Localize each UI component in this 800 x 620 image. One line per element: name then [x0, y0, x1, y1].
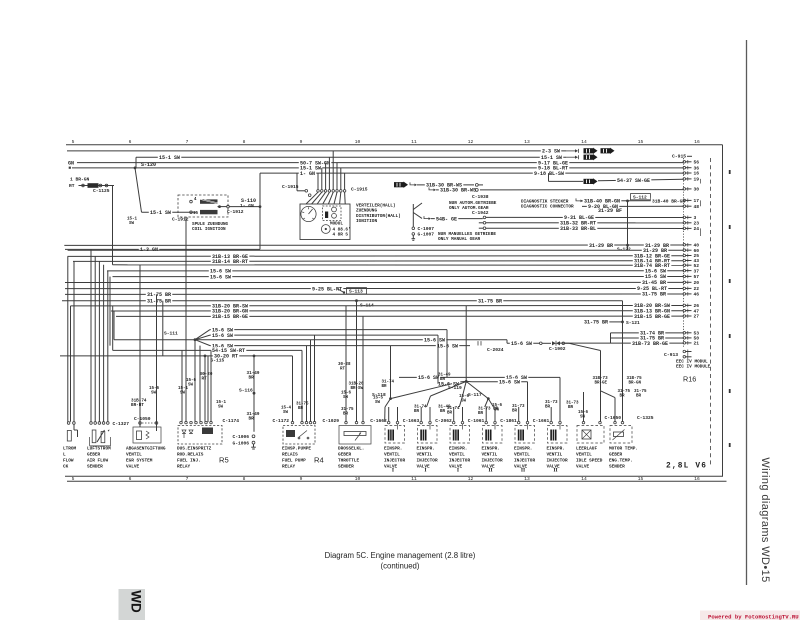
svg-text:C-1915: C-1915: [351, 186, 368, 192]
pin 20 of C-915: [683, 281, 686, 284]
svg-text:31-29 BF: 31-29 BF: [598, 208, 622, 214]
connector C-913 pins: [683, 350, 686, 353]
wire 31B-33 BR-BL to pin 24: [486, 227, 684, 229]
svg-text:15-6: 15-6: [459, 395, 470, 399]
svg-text:C-1174: C-1174: [223, 418, 240, 424]
svg-text:20: 20: [694, 280, 700, 286]
svg-text:54-37 SW-GE: 54-37 SW-GE: [617, 178, 650, 184]
svg-text:31-74: 31-74: [414, 406, 427, 410]
label 9-31 BL-GE: [563, 214, 596, 220]
connector plug 2-3 SW b: [601, 148, 615, 154]
label 31-29 BR pin60: [642, 247, 668, 253]
svg-text:31-73: 31-73: [545, 401, 558, 405]
svg-text:31-75: 31-75: [296, 403, 309, 407]
svg-text:BR: BR: [568, 406, 574, 410]
label 31-75 BR s113 left: [146, 291, 172, 297]
svg-text:SW: SW: [129, 222, 135, 226]
wire drop R4 c: [306, 346, 308, 422]
wire drop B6: [109, 277, 111, 346]
wire drop R5 c: [210, 350, 212, 422]
label 31B-20 BR-SW left: [211, 303, 250, 309]
wire hub riser: [465, 306, 467, 382]
svg-text:12: 12: [468, 139, 474, 145]
injector valve 2: [420, 421, 423, 424]
svg-text:SENDER: SENDER: [338, 465, 354, 470]
wire drop EGR2: [156, 294, 158, 426]
svg-text:9: 9: [300, 139, 303, 145]
svg-text:31-75 BR: 31-75 BR: [147, 298, 171, 304]
svg-text:BR: BR: [440, 378, 446, 382]
svg-text:SENDER: SENDER: [609, 465, 625, 470]
wire drop R4 b: [301, 350, 303, 422]
wire coil to S-110: [230, 206, 261, 208]
svg-text:C-2062: C-2062: [435, 418, 452, 424]
wire drop B3: [98, 261, 100, 421]
svg-text:31B-75: 31B-75: [627, 377, 643, 381]
label 31-74 BR pin53: [639, 330, 665, 336]
wire drop R5 d: [181, 350, 183, 422]
wire drop coil-R5: [185, 217, 187, 422]
svg-text:31B-14 BR-RT: 31B-14 BR-RT: [212, 259, 248, 265]
wire coil riser: [259, 173, 261, 249]
label 15-6 SW b left: [209, 274, 232, 280]
svg-text:60: 60: [694, 248, 700, 254]
svg-text:31-75 BR: 31-75 BR: [642, 292, 666, 298]
wire 15-1 SW top bus: [136, 156, 566, 158]
svg-text:G-1006: G-1006: [233, 440, 250, 446]
svg-text:II: II: [488, 468, 492, 474]
injector valve 5 wires: [518, 407, 520, 421]
pin 60 of C-915: [683, 249, 686, 252]
wire stub to 54-37 plug: [548, 173, 550, 181]
wire drop throttle 1: [345, 306, 347, 422]
wire 31B-15 BR-GE bus to pin 27: [116, 315, 684, 317]
svg-text:SW: SW: [375, 401, 381, 405]
wire 31-29 BR to pin 60: [68, 249, 684, 251]
connector plug 15-1 SW: [584, 154, 598, 160]
junction S-115: [204, 355, 207, 358]
wire 31B-20 BR-GN bus to pin 47: [111, 310, 684, 312]
label 9-18 BL-RT: [537, 165, 570, 171]
pin 36 of C-915: [683, 166, 686, 169]
svg-text:ROD.RELAIS: ROD.RELAIS: [177, 453, 204, 458]
svg-text:31B-15 BR-GE: 31B-15 BR-GE: [212, 314, 248, 320]
terminal G-1007: [412, 233, 415, 236]
svg-text:15-6 SW: 15-6 SW: [437, 343, 458, 349]
svg-text:11: 11: [411, 476, 417, 482]
svg-text:SW: SW: [180, 392, 186, 396]
label 15-1 SW right: [540, 154, 563, 160]
margin section mark 2: [729, 225, 731, 229]
label 9-20 BL-GN: [587, 203, 620, 209]
svg-text:17: 17: [694, 198, 700, 204]
svg-text:VENTIL: VENTIL: [547, 453, 563, 458]
wire drop R4 e: [314, 335, 316, 422]
distributor pin rings: [317, 190, 320, 193]
svg-text:ENG.TEMP.: ENG.TEMP.: [609, 459, 633, 464]
svg-text:19: 19: [694, 177, 700, 183]
coil output junction: [218, 205, 221, 208]
svg-text:31-49: 31-49: [438, 406, 451, 410]
svg-text:BR-SW: BR-SW: [351, 387, 364, 391]
svg-text:BR: BR: [298, 407, 304, 411]
svg-text:15-1: 15-1: [178, 387, 189, 391]
svg-text:I: I: [424, 468, 426, 474]
svg-text:37: 37: [694, 268, 700, 274]
svg-text:24: 24: [694, 226, 700, 232]
label 15-6 SW hub b: [437, 381, 460, 387]
svg-text:C-1861: C-1861: [500, 418, 517, 424]
svg-text:15-6: 15-6: [492, 404, 503, 408]
wire 54-37 SW-GE to pin 19: [598, 179, 684, 180]
wire row1 drop to hub: [446, 330, 448, 378]
wire drop C-1125: [112, 186, 114, 265]
pin 19 of C-915: [683, 178, 686, 181]
wire 54-15 SW-RT: [113, 349, 302, 351]
junction S-118: [389, 397, 392, 400]
svg-text:EINSP.PUMPE: EINSP.PUMPE: [282, 447, 311, 452]
label 31-29 BR mid: [588, 242, 614, 248]
wire S-120 drop to coil: [135, 168, 142, 212]
margin section mark 4: [729, 334, 731, 338]
svg-text:C-2024: C-2024: [487, 347, 504, 353]
svg-text:GEBER: GEBER: [609, 453, 623, 458]
junction wedge S-113: [337, 289, 344, 293]
wire 9-31 BL-GE to pin 3: [486, 216, 684, 218]
svg-text:DUS.EINSPRITZ: DUS.EINSPRITZ: [177, 447, 212, 452]
svg-text:6: 6: [129, 476, 132, 482]
svg-text:SW: SW: [151, 391, 157, 395]
svg-text:BR: BR: [478, 412, 484, 416]
svg-text:5: 5: [72, 139, 75, 145]
wire S-118 diagonal: [391, 384, 453, 399]
diode C-1902 symbol: [552, 341, 556, 345]
component EGR valve: [139, 422, 142, 425]
connector C-2024 symbol: [477, 341, 479, 345]
svg-text:S-112: S-112: [633, 195, 647, 201]
svg-text:CK: CK: [63, 465, 69, 470]
svg-text:GEBER: GEBER: [87, 453, 101, 458]
wire hub diagonals to injectors: [385, 399, 391, 407]
grid frame top rule: [66, 144, 723, 146]
svg-text:56: 56: [694, 160, 700, 166]
svg-text:4: 4: [194, 198, 197, 202]
svg-text:31B-33 BR-BL: 31B-33 BR-BL: [560, 226, 596, 232]
label 31B-20 BR-SW right: [633, 302, 672, 308]
svg-text:31-73: 31-73: [566, 402, 579, 406]
connector plug C-1938 feed: [394, 182, 408, 188]
junction coil bus: [259, 205, 262, 208]
svg-text:BR: BR: [545, 406, 551, 410]
svg-text:WD: WD: [129, 590, 144, 613]
svg-text:C-1061: C-1061: [468, 418, 485, 424]
svg-text:6: 6: [129, 139, 132, 145]
svg-text:C-1915: C-1915: [282, 184, 299, 190]
svg-text:I: I: [457, 468, 459, 474]
svg-text:ABGASENTGIFTUNG: ABGASENTGIFTUNG: [126, 447, 166, 452]
svg-text:2,8L V6: 2,8L V6: [666, 463, 707, 471]
svg-text:15-6 SW: 15-6 SW: [212, 333, 233, 339]
distributor box: [300, 204, 350, 240]
label 31B-13 BR-GN right: [633, 308, 672, 314]
ignition coil dashed box: [178, 195, 228, 217]
component air flow sender (edge, partial): [67, 422, 70, 425]
svg-text:31-75: 31-75: [341, 408, 354, 412]
svg-text:16: 16: [694, 476, 700, 482]
svg-text:VALVE: VALVE: [384, 465, 398, 470]
svg-text:31-75: 31-75: [618, 390, 631, 394]
svg-text:15-4: 15-4: [281, 407, 292, 411]
pin group bracket b: [700, 228, 702, 236]
wire coil output: [219, 206, 221, 208]
label 54-15 SW-RT: [211, 347, 247, 353]
wire drop B4: [103, 265, 105, 422]
svg-text:31-73: 31-73: [512, 405, 525, 409]
svg-text:C-1125: C-1125: [93, 188, 110, 194]
injector valve 5: [517, 421, 520, 424]
svg-text:C-1661: C-1661: [533, 418, 550, 424]
svg-text:C-1007: C-1007: [418, 226, 435, 232]
svg-text:EEC IV MODULE: EEC IV MODULE: [676, 365, 711, 370]
svg-text:BR: BR: [382, 385, 388, 389]
svg-text:INJECTOR: INJECTOR: [417, 459, 438, 464]
label 31B-14 BR-RT right: [633, 258, 672, 264]
injector valve 4 wires: [485, 407, 487, 421]
wire 15-6 SW bus to pin 57: [113, 276, 684, 278]
svg-text:INJECTOR: INJECTOR: [482, 459, 503, 464]
wire drop row339: [113, 311, 115, 340]
svg-text:EINSPR.: EINSPR.: [449, 447, 467, 452]
svg-text:SENDER: SENDER: [87, 465, 103, 470]
pin 47 of C-915: [683, 309, 686, 312]
label 54-37 SW-GE: [616, 177, 652, 183]
junction S-116: [253, 392, 256, 395]
svg-text:5: 5: [72, 476, 75, 482]
svg-text:31B-15 BR-GE: 31B-15 BR-GE: [634, 314, 670, 320]
injector valve 3: [452, 421, 455, 424]
pin 30 of C-915: [683, 188, 686, 191]
svg-text:LUFTSTROM: LUFTSTROM: [87, 447, 111, 452]
svg-text:MOTOR TEMP.: MOTOR TEMP.: [609, 447, 638, 452]
label 15-6 SW hub a: [417, 374, 440, 380]
ring C-1902 right: [562, 342, 565, 345]
pin group bracket c: [700, 179, 702, 184]
svg-text:GN: GN: [68, 160, 74, 166]
wire 31-75 BR long bus: [62, 300, 623, 302]
pin 26 of C-915: [683, 304, 686, 307]
svg-text:BR: BR: [249, 417, 255, 422]
svg-text:EGR SYSTEM: EGR SYSTEM: [126, 459, 153, 464]
svg-text:23: 23: [694, 221, 700, 227]
wire drop idle 1: [583, 392, 585, 422]
svg-text:10: 10: [355, 476, 361, 482]
wire drop A2: [73, 261, 75, 421]
svg-text:S-113: S-113: [349, 289, 363, 295]
svg-text:DROSSELKL.: DROSSELKL.: [338, 447, 364, 452]
svg-text:22: 22: [694, 286, 700, 292]
label 15-1 SW coil feed: [149, 209, 172, 215]
svg-text:VENTIL: VENTIL: [576, 453, 592, 458]
module circle: [321, 225, 330, 234]
inner dashed margin rule: [710, 158, 712, 467]
watermark band: [700, 611, 800, 620]
svg-text:15-6 SW: 15-6 SW: [418, 375, 439, 381]
svg-text:11: 11: [411, 139, 417, 145]
wire distributor C-1915 left stub: [296, 173, 298, 191]
inline connector rings: [82, 184, 85, 187]
label 31-75 BR pin50: [639, 335, 665, 341]
pin 24 of C-915: [683, 227, 686, 230]
label 31-75 BR S-121: [583, 319, 609, 325]
svg-text:BR: BR: [636, 395, 642, 399]
label 9-25 BL-RT right: [636, 285, 669, 291]
wire 31-29 BR bus to pin 40: [64, 244, 683, 246]
svg-text:LEERLAUF: LEERLAUF: [576, 447, 597, 452]
wire 31B-40 BR-GN to pin 17: [582, 200, 684, 202]
svg-text:15-6: 15-6: [578, 411, 589, 415]
margin section mark 1: [729, 170, 731, 174]
pin 16 of C-915: [683, 172, 686, 175]
svg-text:40: 40: [694, 243, 700, 249]
wire drop S-111 to R5: [194, 340, 196, 422]
svg-text:7: 7: [186, 139, 189, 145]
wire drop R5 e: [207, 356, 209, 422]
distributor pin risers: [317, 173, 319, 189]
hall sensor magnet bar: [325, 212, 328, 219]
wire C-1902 link: [506, 340, 508, 344]
svg-text:C-1172: C-1172: [273, 418, 290, 424]
gear option branch wedge: [412, 204, 414, 227]
terminal C-1006: [252, 435, 255, 438]
svg-text:16: 16: [694, 139, 700, 145]
wire drop throttle 2 S-114: [356, 301, 358, 422]
svg-text:54B- GE: 54B- GE: [436, 216, 457, 222]
wire 31B-73 BR-GE to pin 21: [560, 342, 684, 344]
pin 27 of C-915: [683, 315, 686, 318]
svg-text:7: 7: [186, 476, 189, 482]
label 15-6 SW hub right: [505, 374, 528, 380]
WD page tab: [119, 589, 146, 620]
label 31B-33 BR-BL: [559, 225, 598, 231]
pin 53 of C-915: [683, 332, 686, 335]
svg-text:THROTTLE: THROTTLE: [338, 459, 359, 464]
pin 48 of C-915: [683, 205, 686, 208]
svg-text:16: 16: [694, 171, 700, 177]
wire 31-45 BR bus to pin 20: [65, 281, 684, 283]
coil terminal 15: [190, 211, 193, 214]
svg-text:R4: R4: [314, 456, 324, 465]
svg-text:13: 13: [524, 476, 530, 482]
svg-text:10: 10: [355, 139, 361, 145]
label S-112 boxed: [631, 194, 651, 200]
svg-text:1- GN: 1- GN: [240, 203, 254, 209]
svg-text:31-75 BR: 31-75 BR: [478, 298, 502, 304]
svg-text:S-121: S-121: [626, 320, 640, 326]
label S-113 boxed: [347, 288, 367, 294]
pin 43 of C-915: [683, 259, 686, 262]
label 15-6 SW b right: [644, 273, 667, 279]
svg-text:BR: BR: [249, 376, 255, 381]
junction S-111 wedge: [195, 330, 210, 340]
svg-text:21: 21: [694, 341, 700, 347]
pin 40 of C-915: [683, 244, 686, 247]
svg-text:C-1650: C-1650: [605, 415, 622, 421]
pin 37 of C-915: [683, 269, 686, 272]
grid frame bottom rule 2: [67, 480, 727, 482]
label 15-6 SW row1: [211, 326, 234, 332]
wire pin53 group link: [610, 333, 612, 343]
wire 15-6 SW bus to pin 37: [107, 270, 684, 272]
svg-text:I: I: [392, 468, 394, 474]
coil primary winding: [200, 199, 218, 203]
svg-text:15-6: 15-6: [186, 379, 197, 383]
wire S-121 stub: [609, 321, 623, 323]
svg-text:31B-20: 31B-20: [349, 383, 365, 387]
svg-text:C-1006: C-1006: [233, 434, 250, 440]
ground G-1007: [412, 238, 416, 240]
label 31B-15 BR-GE left: [211, 313, 250, 319]
relay R5 fuel injection: [180, 421, 183, 424]
coil terminal 4: [190, 200, 193, 203]
svg-text:COIL IGNITION: COIL IGNITION: [192, 227, 226, 232]
svg-text:31B-30 BR-WS: 31B-30 BR-WS: [440, 188, 476, 194]
label 31B-30 BR-WS 1: [425, 182, 464, 188]
svg-text:31-49: 31-49: [438, 374, 451, 378]
svg-text:VALVE: VALVE: [126, 465, 140, 470]
terminal G-1006: [252, 441, 255, 444]
svg-text:G-1007: G-1007: [418, 232, 435, 238]
svg-text:C-1902: C-1902: [549, 346, 566, 352]
svg-text:FUEL INJ.: FUEL INJ.: [177, 459, 201, 464]
svg-text:FUEL PUMP: FUEL PUMP: [282, 459, 306, 464]
svg-text:4 8R S: 4 8R S: [333, 232, 349, 237]
svg-text:15-1 SW: 15-1 SW: [159, 155, 180, 161]
svg-text:L: L: [63, 453, 66, 458]
svg-text:S-116: S-116: [239, 388, 253, 394]
svg-text:EINSPR.: EINSPR.: [514, 447, 532, 452]
terminal C-1007: [412, 227, 415, 230]
svg-text:9-18 BL-SW: 9-18 BL-SW: [534, 171, 564, 177]
svg-text:15-1 SW: 15-1 SW: [150, 210, 171, 216]
svg-text:BR: BR: [447, 412, 453, 416]
svg-text:VENTIL: VENTIL: [384, 453, 400, 458]
label 15-1 SW left: [158, 154, 181, 160]
hall sensor dashed box: [323, 206, 342, 221]
grid frame right rule: [722, 145, 724, 477]
wire drop R4 a: [292, 356, 294, 422]
svg-text:BR-GN: BR-GN: [629, 382, 642, 386]
label 15-6 SW a right: [644, 268, 667, 274]
label 1-3 GN: [139, 246, 159, 252]
coil secondary winding: [200, 210, 218, 214]
pin 23 of C-915: [683, 222, 686, 225]
svg-text:31-75: 31-75: [634, 390, 647, 394]
wire drop R5 b: [199, 346, 201, 422]
label 9-25 BL-RT mid: [311, 285, 344, 291]
svg-text:SW: SW: [494, 409, 500, 413]
label 31-75 BR right pin46: [641, 291, 667, 297]
label 31B-20 BR-GN left: [211, 308, 250, 314]
junction S-121: [621, 321, 624, 324]
arrow into plug row1: [566, 149, 579, 153]
svg-text:47: 47: [694, 308, 700, 314]
injector valve 1 wires: [388, 407, 390, 421]
svg-text:2-3 SW: 2-3 SW: [542, 149, 560, 155]
wire hub row c: [466, 380, 472, 382]
svg-text:30: 30: [694, 187, 700, 193]
wire drop S-115 to R5: [204, 356, 206, 422]
svg-text:SW: SW: [283, 411, 289, 415]
